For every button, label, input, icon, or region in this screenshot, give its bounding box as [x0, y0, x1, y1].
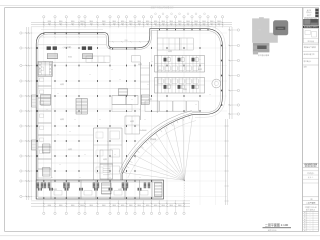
svg-text:8400: 8400: [102, 21, 106, 23]
svg-text:2250: 2250: [125, 40, 128, 42]
bottom wing outer walls: [36, 180, 163, 199]
svg-text:8400: 8400: [59, 205, 63, 207]
svg-text:商铺: 商铺: [60, 118, 64, 121]
top dimension lines: [31, 21, 232, 23]
svg-text:4200: 4200: [187, 23, 190, 25]
open area horizontal lines: [38, 88, 141, 90]
building outer wall: [36, 29, 222, 199]
svg-text:8400: 8400: [194, 21, 198, 23]
svg-text:商铺: 商铺: [103, 158, 107, 161]
rooms cluster near curve: [125, 116, 140, 134]
escalator core B: [82, 46, 86, 50]
bottom wing core hatch: [102, 183, 112, 194]
svg-text:8400: 8400: [59, 21, 63, 23]
curtain wall mullion ticks: [123, 172, 126, 174]
svg-text:8400: 8400: [162, 21, 166, 23]
radial sight lines fan: [123, 173, 185, 181]
svg-text:8400: 8400: [102, 205, 106, 207]
curved curtain wall band: [122, 114, 193, 174]
bottom wing second row blocks: [38, 188, 40, 191]
mid interior partition walls: [93, 128, 95, 180]
title block name rows: [303, 196, 319, 198]
svg-text:商铺: 商铺: [130, 120, 134, 123]
structural columns: [55, 47, 56, 49]
svg-text:4200: 4200: [154, 23, 157, 25]
svg-text:8400: 8400: [170, 21, 174, 23]
svg-text:8400: 8400: [170, 205, 174, 207]
right wing left divider: [156, 30, 158, 112]
svg-text:8400: 8400: [146, 21, 150, 23]
svg-text:R=35000: R=35000: [140, 130, 147, 132]
key plan tail: [253, 52, 258, 55]
svg-text:8400: 8400: [71, 21, 75, 23]
right wing band 2: [155, 78, 205, 94]
key plan top tab: [259, 17, 264, 18]
left dimension lines: [25, 27, 27, 200]
right dimension ticks: [228, 29, 233, 31]
svg-text:4200: 4200: [71, 23, 74, 25]
svg-text:8400: 8400: [202, 21, 206, 23]
left wall inner cores: [43, 144, 51, 153]
svg-text:8400: 8400: [154, 21, 158, 23]
svg-text:8400: 8400: [80, 21, 84, 23]
right dimension lines: [229, 27, 231, 119]
rooms above curve start: [112, 96, 126, 105]
canopy lines: [41, 28, 103, 30]
hatched core left wall: [41, 94, 51, 105]
right wing band 1 lower cells: [158, 66, 163, 71]
svg-text:8400: 8400: [48, 205, 52, 207]
wall columns left: [36, 47, 38, 49]
svg-text:8400: 8400: [129, 21, 133, 23]
title block top box: [304, 8, 316, 17]
inner top dim line: [38, 36, 106, 38]
svg-text:4200: 4200: [59, 23, 62, 25]
title block logo squares: [315, 9, 318, 12]
right wing band 2 cores: [164, 85, 167, 89]
key plan dark bar: [276, 27, 286, 30]
svg-text:4200: 4200: [121, 23, 124, 25]
fan point leader: [183, 180, 185, 205]
svg-text:商铺: 商铺: [68, 148, 72, 151]
bottom wing unit dividers: [50, 180, 52, 199]
wall columns right wing: [221, 45, 222, 47]
central escalator ladder: [76, 99, 87, 115]
title block signature rows: [303, 170, 319, 172]
svg-text:8400: 8400: [113, 21, 117, 23]
sheet edge lines: [0, 5, 320, 7]
title block photo strip: [303, 19, 318, 26]
key plan light body: [252, 18, 278, 42]
key plan striped block: [253, 43, 270, 53]
top dimension ticks and text: [43, 21, 45, 27]
toilet cluster left: [38, 61, 53, 76]
left wall room fixtures: [40, 67, 44, 70]
rooms above bottom wing: [100, 164, 113, 179]
svg-text:8400: 8400: [178, 21, 182, 23]
svg-text:二层平面图 1:100: 二层平面图 1:100: [265, 222, 289, 227]
drawing title underline: [263, 226, 292, 228]
svg-text:4200: 4200: [162, 23, 165, 25]
svg-text:8400: 8400: [162, 205, 166, 207]
right wing band 1: [155, 56, 205, 73]
small core near curve: [119, 89, 128, 96]
svg-text:8400: 8400: [154, 205, 158, 207]
svg-text:8.850: 8.850: [68, 57, 72, 59]
svg-text:8400: 8400: [178, 205, 182, 207]
bottom grid bubbles: [43, 212, 45, 214]
svg-text:8400: 8400: [121, 21, 125, 23]
left stair shafts outside wall: [32, 95, 37, 107]
right wing top rooms: [157, 38, 179, 50]
wall columns top: [43, 33, 44, 35]
bottom wing small rects: [54, 191, 62, 196]
svg-text:8400: 8400: [186, 21, 190, 23]
svg-text:4200: 4200: [102, 23, 105, 25]
svg-text:4200: 4200: [178, 23, 181, 25]
title block revision table: [303, 210, 319, 212]
right wing band 2 upper cells: [158, 79, 163, 83]
svg-text:商铺: 商铺: [118, 188, 122, 191]
title block left divider: [302, 8, 304, 232]
svg-text:商铺: 商铺: [168, 50, 172, 53]
mid room fixtures: [110, 131, 120, 139]
svg-text:8400: 8400: [138, 21, 142, 23]
svg-text:4200: 4200: [113, 23, 116, 25]
escalator core A: [47, 46, 51, 50]
bottom dimension ticks and text: [43, 200, 45, 207]
svg-text:4200: 4200: [138, 23, 141, 25]
svg-text:8400: 8400: [210, 21, 214, 23]
svg-text:8400: 8400: [113, 205, 117, 207]
left wall rooms: [38, 64, 52, 75]
building inner wall line: [38, 30, 221, 197]
svg-text:4200: 4200: [146, 23, 149, 25]
left dimension ticks: [25, 32, 32, 34]
bottom wing first unit pair: [37, 183, 40, 189]
rooms top strip at 131-143: [132, 56, 141, 63]
svg-text:商铺: 商铺: [60, 83, 64, 86]
notch dimension string: [108, 41, 150, 43]
left grid bubbles: [20, 32, 22, 34]
svg-text:商铺: 商铺: [148, 98, 152, 101]
svg-text:4200: 4200: [81, 23, 84, 25]
svg-text:4200: 4200: [195, 23, 198, 25]
column grid lines: [43, 27, 45, 205]
corridor line top-left wing: [38, 61, 106, 63]
title block company bar: [303, 26, 319, 28]
right wing corridor rooms top: [145, 101, 159, 112]
svg-text:8400: 8400: [90, 205, 94, 207]
svg-text:商铺: 商铺: [53, 188, 57, 191]
title block signature header: [303, 162, 319, 164]
svg-text:8400: 8400: [138, 205, 142, 207]
key plan highlighted block: [273, 20, 288, 35]
interior wall strip x140: [140, 62, 142, 120]
title block location box: [303, 29, 318, 43]
svg-text:8400: 8400: [71, 205, 75, 207]
wall columns bottom wing: [43, 180, 44, 182]
svg-text:4200: 4200: [203, 23, 206, 25]
svg-text:8400: 8400: [48, 21, 52, 23]
svg-text:8400: 8400: [80, 205, 84, 207]
svg-text:4200: 4200: [90, 23, 93, 25]
svg-text:商铺: 商铺: [198, 68, 202, 71]
top sub bubbles right wing: [155, 13, 157, 15]
bottom wing column pairs: [44, 183, 47, 189]
svg-text:8400: 8400: [129, 205, 133, 207]
svg-text:4200: 4200: [210, 23, 213, 25]
key plan stripe dark bar: [257, 45, 266, 49]
round feature: [212, 79, 221, 88]
svg-text:8400: 8400: [217, 21, 221, 23]
svg-text:4200: 4200: [129, 23, 132, 25]
rooms row below step wall: [86, 56, 110, 62]
svg-text:8400: 8400: [121, 205, 125, 207]
svg-text:商铺: 商铺: [183, 88, 187, 91]
top grid bubbles: [43, 16, 45, 18]
title block upper rows: [303, 44, 319, 46]
svg-text:4200: 4200: [218, 23, 221, 25]
right wing band 1 cores: [164, 58, 167, 62]
svg-text:8400: 8400: [90, 21, 94, 23]
right grid bubbles: [237, 29, 239, 31]
bottom dimension lines: [31, 200, 190, 202]
svg-text:8400: 8400: [146, 205, 150, 207]
svg-text:4200: 4200: [48, 23, 51, 25]
curve end wall to bottom wing: [121, 174, 123, 180]
svg-text:商铺: 商铺: [138, 63, 142, 66]
svg-text:4200: 4200: [170, 23, 173, 25]
